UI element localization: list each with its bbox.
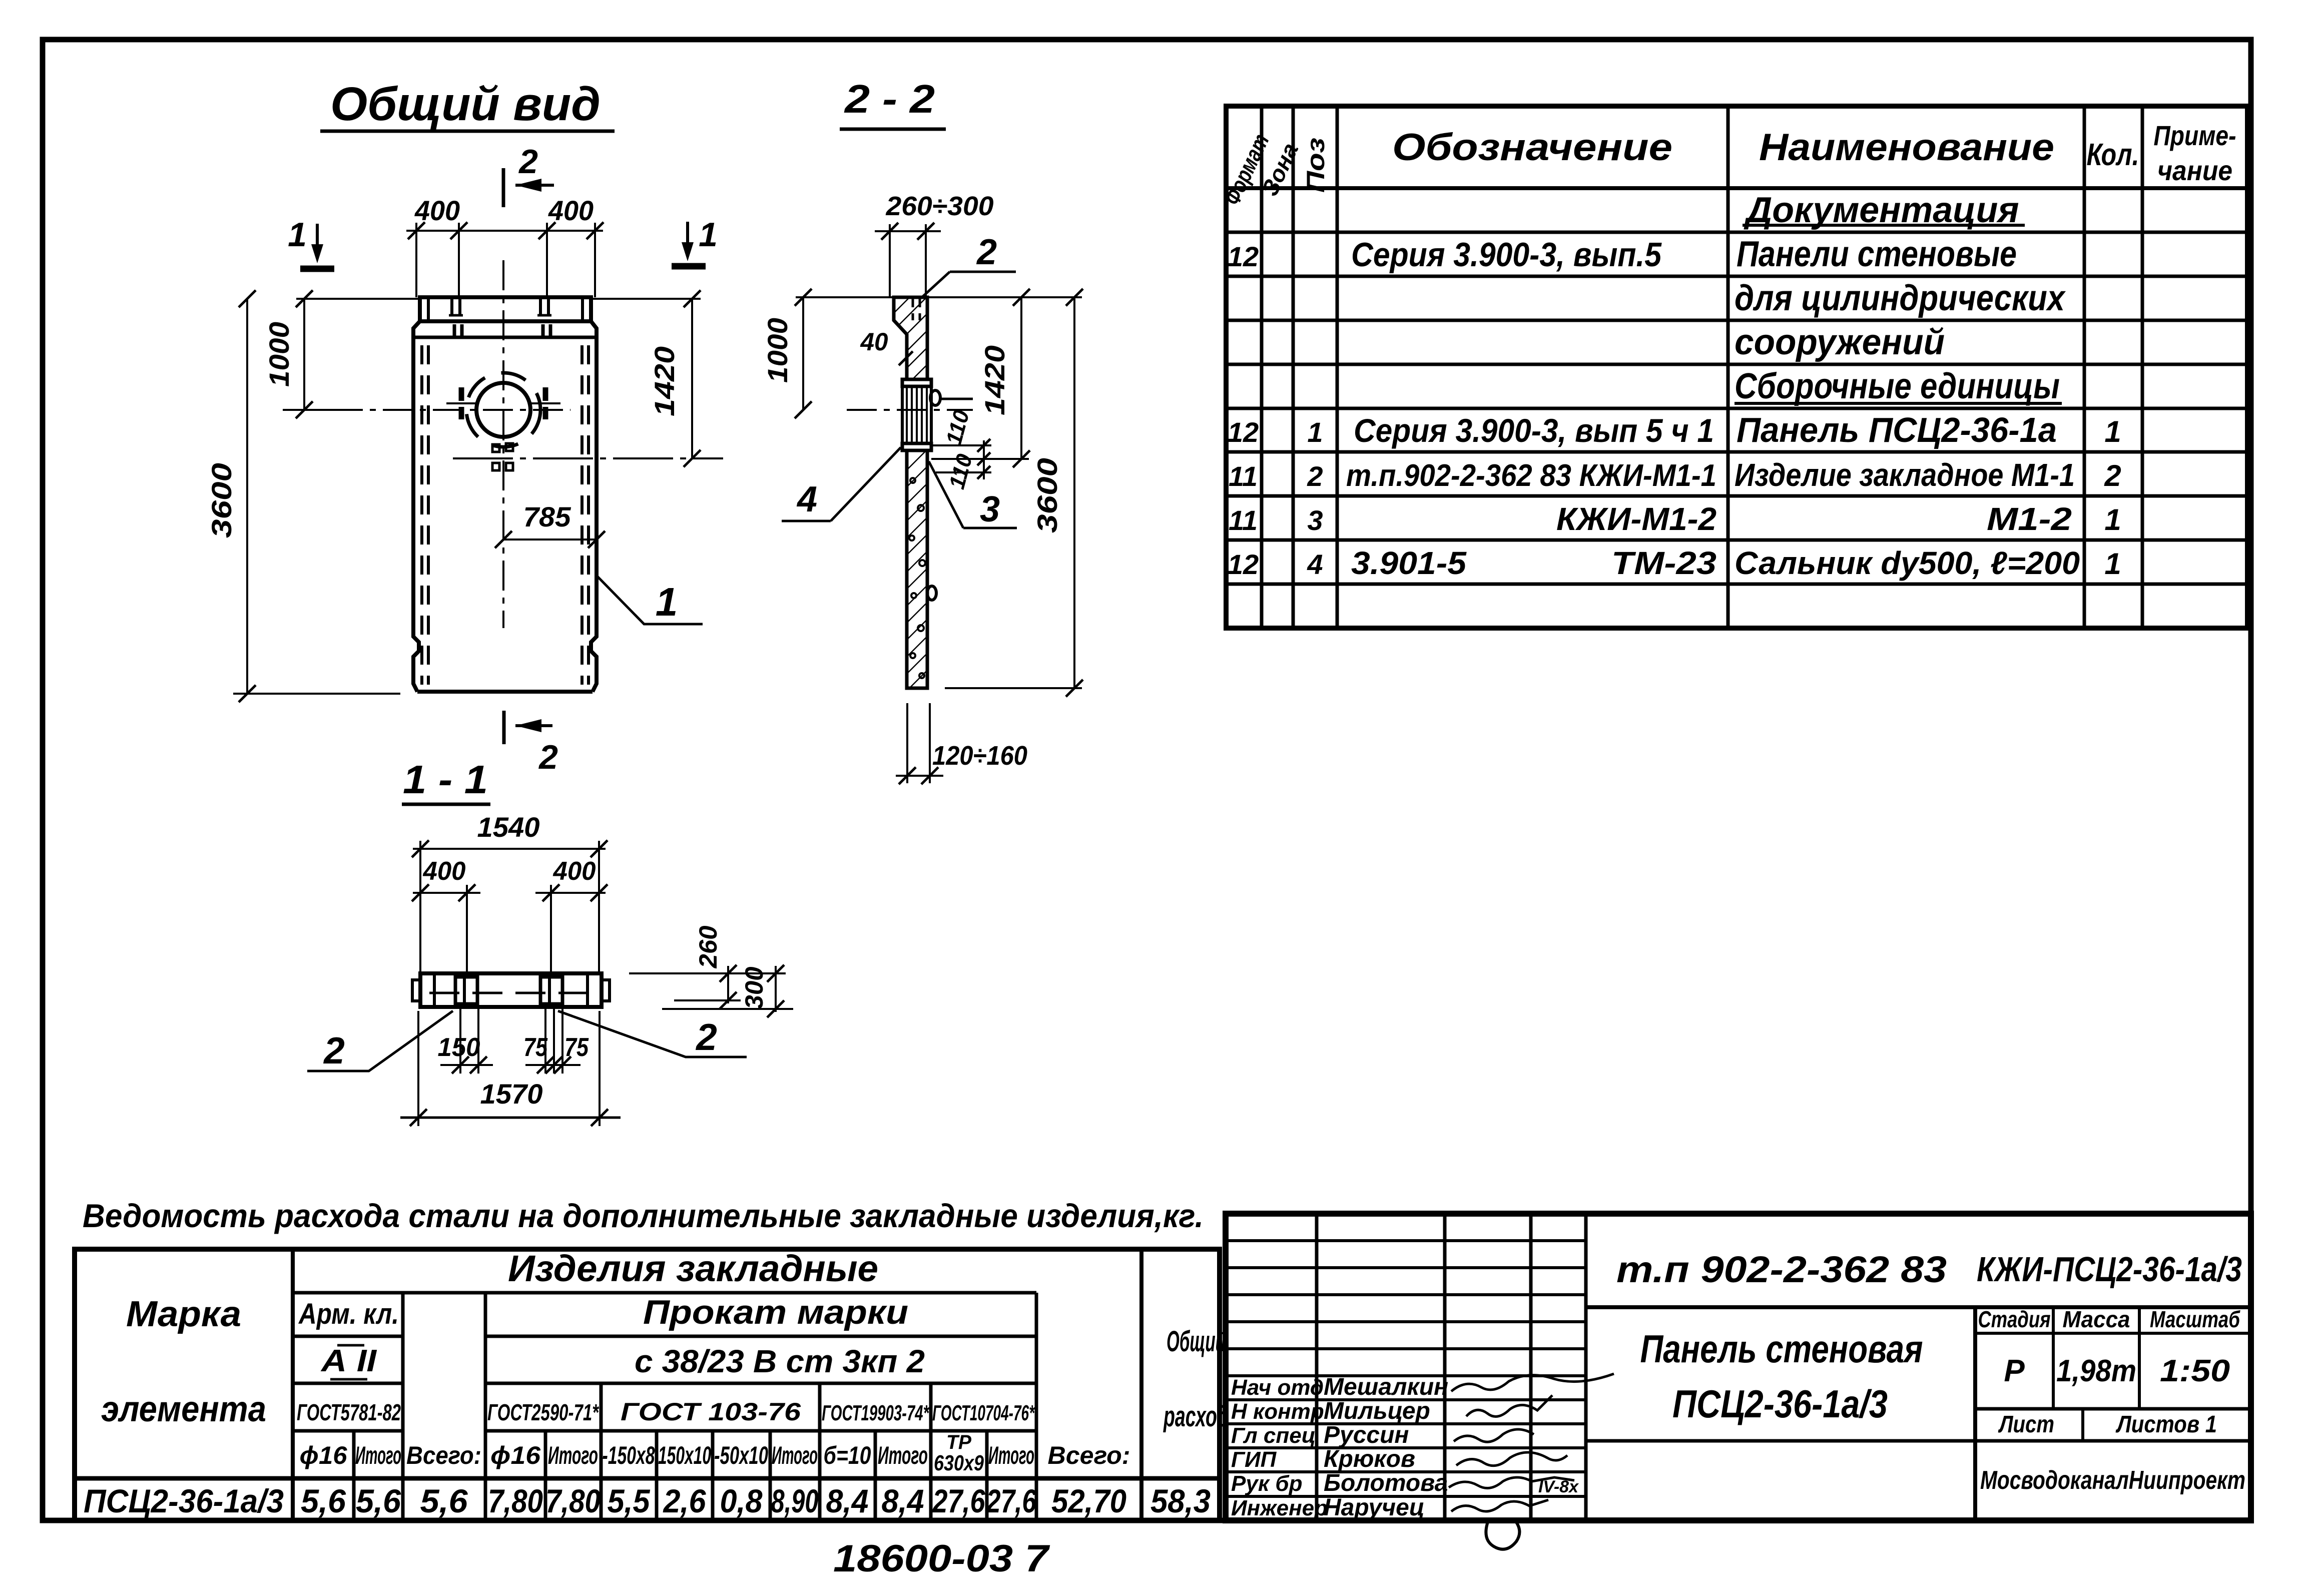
svg-text:0,8: 0,8: [720, 1482, 763, 1519]
svg-text:Обозначение: Обозначение: [1392, 126, 1672, 169]
dim 1420 (right): [591, 290, 701, 467]
svg-text:5,5: 5,5: [608, 1482, 651, 1519]
svg-text:1 - 1: 1 - 1: [403, 757, 488, 802]
svg-text:120÷160: 120÷160: [932, 741, 1027, 771]
svg-text:МосводоканалНиипроект: МосводоканалНиипроект: [1980, 1466, 2245, 1495]
dim 1000 (2-2): [762, 289, 894, 418]
embedded item squares: [492, 443, 513, 470]
spec row 1: Панель ПСЦ2-36-1а: [1228, 410, 2121, 449]
svg-text:ГОСТ 103-76: ГОСТ 103-76: [621, 1398, 801, 1426]
section mark 1 (right): [672, 216, 718, 266]
svg-text:элемента: элемента: [101, 1389, 266, 1429]
svg-text:1570: 1570: [480, 1078, 543, 1110]
svg-text:ПСЦ2-36-1а/3: ПСЦ2-36-1а/3: [1672, 1382, 1888, 1426]
svg-text:2: 2: [1307, 460, 1323, 492]
centerline 1-1: [429, 992, 593, 994]
sleeve packing (item 4): [902, 386, 931, 443]
2-2 wall (hatched): [907, 450, 927, 688]
svg-text:3: 3: [980, 489, 1000, 529]
svg-text:Панель ПСЦ2-36-1а: Панель ПСЦ2-36-1а: [1737, 410, 2057, 449]
spec table headers: [1219, 120, 2236, 209]
stadia values: [2004, 1354, 2230, 1388]
svg-text:4: 4: [1307, 549, 1323, 580]
svg-text:т.п 902-2-362 83: т.п 902-2-362 83: [1616, 1249, 1947, 1290]
lifting loop (2-2 upper): [930, 390, 973, 405]
view title: 1-1: [402, 757, 490, 804]
callout 1 leader: [598, 577, 703, 624]
svg-text:2: 2: [695, 1016, 717, 1058]
svg-text:Руссин: Руссин: [1324, 1422, 1409, 1448]
svg-text:-150x8: -150x8: [603, 1441, 655, 1469]
callout 3 (2-2): [929, 461, 1017, 529]
svg-text:2: 2: [538, 738, 558, 776]
svg-text:Итого: Итого: [878, 1441, 928, 1469]
svg-text:ТМ-23: ТМ-23: [1611, 545, 1716, 581]
dim 1000 (left): [263, 290, 420, 418]
svg-text:Изделие закладное М1-1: Изделие закладное М1-1: [1735, 457, 2075, 493]
svg-text:ГОСТ19903-74*: ГОСТ19903-74*: [822, 1401, 929, 1425]
svg-text:М1-2: М1-2: [1987, 501, 2072, 537]
spec row: Документация: [1743, 190, 2025, 230]
svg-text:Итого: Итого: [772, 1441, 818, 1469]
svg-text:8,90: 8,90: [771, 1482, 819, 1519]
panel cap (front view): [420, 297, 591, 321]
dims 260 300 (right of 1-1): [629, 925, 793, 1017]
svg-text:3: 3: [1307, 504, 1323, 536]
spec row 4: Сальник: [1228, 545, 2121, 581]
dim 785: [495, 501, 605, 548]
svg-text:2: 2: [518, 143, 538, 181]
svg-text:58,3: 58,3: [1150, 1482, 1211, 1519]
dim 400 400 (top): [406, 195, 604, 297]
svg-text:3600: 3600: [206, 463, 237, 538]
dashed circle (sleeve outline): [466, 373, 540, 447]
stadia headers: [1978, 1306, 2241, 1332]
dim 150: [438, 1009, 493, 1074]
svg-text:Панель стеновая: Панель стеновая: [1640, 1327, 1923, 1371]
svg-text:Всего:: Всего:: [406, 1441, 481, 1469]
dim 120÷160 (bottom): [896, 703, 1027, 784]
svg-text:б=10: б=10: [824, 1441, 871, 1469]
svg-text:Итого: Итого: [548, 1441, 598, 1469]
svg-text:Приме-: Приме-: [2154, 120, 2236, 151]
svg-text:11: 11: [1229, 504, 1258, 536]
svg-text:ГИП: ГИП: [1231, 1447, 1277, 1472]
svg-text:1: 1: [699, 216, 718, 254]
svg-text:1:50: 1:50: [2160, 1354, 2230, 1388]
hole circle: [476, 383, 530, 437]
svg-text:27,6: 27,6: [985, 1482, 1037, 1519]
svg-text:Кол.: Кол.: [2087, 138, 2139, 172]
svg-text:1: 1: [288, 216, 307, 254]
section 1-1 bar: [412, 973, 610, 1007]
svg-text:12: 12: [1228, 549, 1259, 580]
view title: Общий вид: [320, 78, 615, 131]
svg-text:18600-03 7: 18600-03 7: [833, 1537, 1050, 1580]
svg-text:Нач отд: Нач отд: [1231, 1375, 1324, 1400]
svg-text:Панели стеновые: Панели стеновые: [1737, 234, 2017, 274]
dim 1570: [400, 1011, 621, 1126]
svg-text:Рук бр: Рук бр: [1231, 1471, 1302, 1496]
svg-text:7,80: 7,80: [545, 1482, 601, 1519]
svg-text:Общий вид: Общий вид: [330, 78, 601, 131]
svg-text:7,80: 7,80: [488, 1482, 543, 1519]
svg-text:1: 1: [656, 580, 678, 624]
callout 4 (2-2): [782, 447, 901, 521]
svg-text:1000: 1000: [762, 318, 793, 383]
section mark 2 (bottom): [504, 711, 558, 776]
svg-text:КЖИ-ПСЦ2-36-1а/3: КЖИ-ПСЦ2-36-1а/3: [1977, 1250, 2242, 1289]
svg-text:3600: 3600: [1031, 458, 1063, 533]
svg-text:Сальник dу500, ℓ=200: Сальник dу500, ℓ=200: [1735, 545, 2080, 581]
dims 400 400 (1-1): [412, 857, 608, 973]
svg-text:Поз: Поз: [1302, 138, 1330, 193]
svg-text:5,6: 5,6: [356, 1482, 401, 1519]
svg-text:1420: 1420: [649, 346, 680, 416]
svg-text:2: 2: [323, 1029, 345, 1072]
svg-text:ПСЦ2-36-1а/3: ПСЦ2-36-1а/3: [84, 1482, 284, 1519]
sleeve bottom flange: [902, 443, 931, 450]
svg-text:Инженер: Инженер: [1231, 1496, 1328, 1520]
svg-text:Мильцер: Мильцер: [1324, 1398, 1430, 1424]
dim 3600 (left): [206, 290, 400, 702]
spec row 3: КЖИ-М1-2 / М1-2: [1229, 501, 2121, 537]
svg-text:400: 400: [553, 857, 596, 886]
svg-text:Сборочные единицы: Сборочные единицы: [1735, 366, 2060, 406]
sleeve top flange: [902, 379, 931, 386]
dashed face lines right: [582, 345, 589, 685]
dim 1540: [412, 811, 608, 973]
view title: 2-2: [840, 77, 946, 129]
svg-text:-50x10: -50x10: [714, 1441, 768, 1469]
svg-text:1: 1: [2104, 547, 2121, 581]
svg-text:75: 75: [564, 1033, 589, 1062]
callout 2 (1-1 right): [558, 1011, 747, 1058]
spec row: Сборочные единицы: [1735, 366, 2062, 406]
svg-text:Стадия: Стадия: [1978, 1306, 2051, 1332]
dim 3600 (2-2): [927, 289, 1083, 697]
steel table sub headers: [300, 1431, 1130, 1475]
svg-text:Арм. кл.: Арм. кл.: [298, 1298, 399, 1330]
svg-text:1: 1: [2104, 503, 2121, 537]
anchor marks beside hole: [446, 387, 560, 419]
svg-text:Лист: Лист: [1998, 1411, 2054, 1438]
2-2 cap (hatched): [894, 297, 927, 379]
svg-text:А II: А II: [320, 1344, 377, 1378]
svg-text:Гл спец: Гл спец: [1231, 1423, 1316, 1448]
svg-text:Ведомость расхода стали на доп: Ведомость расхода стали на дополнительны…: [83, 1197, 1204, 1234]
svg-text:12: 12: [1228, 241, 1259, 272]
svg-text:2,6: 2,6: [663, 1482, 707, 1519]
svg-text:ГОСТ5781-82: ГОСТ5781-82: [297, 1399, 401, 1425]
svg-text:8,4: 8,4: [882, 1482, 924, 1519]
svg-text:5,6: 5,6: [420, 1482, 468, 1519]
svg-text:Крюков: Крюков: [1324, 1446, 1415, 1472]
dashed face lines left: [422, 345, 428, 685]
bolt block left (1-1): [455, 977, 477, 1004]
svg-text:Общий: Общий: [1167, 1325, 1226, 1358]
svg-text:сооружений: сооружений: [1735, 322, 1945, 362]
svg-text:Наименование: Наименование: [1759, 126, 2054, 169]
svg-text:Серия 3.900-3, вып 5 ч 1: Серия 3.900-3, вып 5 ч 1: [1354, 412, 1714, 449]
svg-text:300: 300: [740, 966, 768, 1009]
svg-text:Мешалкин: Мешалкин: [1324, 1374, 1448, 1400]
svg-text:2: 2: [976, 232, 997, 272]
svg-text:1540: 1540: [477, 811, 540, 843]
svg-text:с 38/23 В ст 3кп 2: с 38/23 В ст 3кп 2: [635, 1343, 925, 1379]
svg-text:400: 400: [414, 195, 460, 226]
steel table data row: [84, 1482, 1211, 1519]
dims 75 75: [523, 1009, 589, 1074]
spec row: Серия 3.900-3 вып.5 / Панели стеновые: [1228, 234, 2017, 274]
title block grid: [1226, 1214, 2251, 1520]
svg-text:4: 4: [796, 479, 817, 519]
svg-text:1420: 1420: [979, 345, 1010, 415]
lifting loop (2-2 lower): [927, 586, 936, 600]
panel body outline (front view): [413, 321, 597, 692]
spec row 2: Изделие закладное М1-1: [1229, 457, 2121, 493]
dims 110 110: [931, 407, 991, 492]
svg-text:2 - 2: 2 - 2: [844, 77, 935, 121]
svg-text:ϕ16: ϕ16: [490, 1441, 541, 1469]
svg-text:5,6: 5,6: [301, 1482, 346, 1519]
svg-text:260: 260: [694, 925, 722, 968]
vertical centerline: [502, 260, 504, 628]
svg-text:52,70: 52,70: [1051, 1482, 1126, 1519]
svg-text:1,98т: 1,98т: [2056, 1354, 2136, 1388]
horizontal centerline (hole axis): [283, 409, 570, 411]
svg-text:т.п.902-2-362 83 КЖИ-М1-1: т.п.902-2-362 83 КЖИ-М1-1: [1346, 458, 1716, 493]
concrete dots on wall: [909, 478, 925, 678]
steel table grid: [75, 1249, 1220, 1520]
bolt block right (1-1): [540, 977, 562, 1004]
svg-text:Масштаб: Масштаб: [2150, 1306, 2240, 1332]
svg-text:40: 40: [860, 328, 888, 356]
bolt axis line: [453, 457, 723, 459]
svg-text:3.901-5: 3.901-5: [1351, 545, 1467, 581]
svg-text:ГОСТ10704-76*: ГОСТ10704-76*: [932, 1401, 1035, 1425]
svg-text:1: 1: [2104, 415, 2121, 448]
svg-text:КЖИ-М1-2: КЖИ-М1-2: [1556, 501, 1716, 537]
svg-text:1000: 1000: [263, 322, 295, 387]
svg-text:1: 1: [1307, 416, 1323, 448]
signature roles and names: [1231, 1374, 1448, 1521]
sheet row: Лист / Листов 1: [1998, 1411, 2217, 1438]
svg-text:8,4: 8,4: [826, 1482, 869, 1519]
svg-text:12: 12: [1228, 416, 1259, 448]
svg-text:расход: расход: [1163, 1400, 1229, 1433]
svg-text:Листов 1: Листов 1: [2115, 1411, 2217, 1438]
svg-text:чание: чание: [2157, 155, 2232, 186]
svg-text:75: 75: [523, 1033, 548, 1062]
section mark 1 (left): [288, 216, 334, 269]
svg-text:Итого: Итого: [355, 1441, 401, 1469]
svg-text:11: 11: [1229, 460, 1258, 492]
svg-text:Итого: Итого: [988, 1441, 1034, 1469]
svg-text:Масса: Масса: [2063, 1306, 2130, 1332]
svg-text:Изделия закладные: Изделия закладные: [508, 1248, 878, 1289]
svg-text:785: 785: [523, 501, 571, 533]
svg-text:260÷300: 260÷300: [885, 191, 993, 221]
svg-text:150: 150: [438, 1033, 480, 1062]
callout 2 (2-2): [921, 232, 1016, 298]
svg-text:ГОСТ2590-71*: ГОСТ2590-71*: [487, 1399, 599, 1425]
callout 2 (1-1 left): [307, 1011, 453, 1072]
svg-text:Н контр: Н контр: [1231, 1399, 1324, 1424]
cap bolt slots: [449, 298, 551, 336]
svg-text:400: 400: [423, 857, 466, 886]
dim 1420 (2-2): [931, 289, 1030, 467]
svg-text:Р: Р: [2004, 1354, 2025, 1388]
specification table grid: [1226, 106, 2247, 628]
svg-text:для цилиндрических: для цилиндрических: [1735, 278, 2066, 318]
section mark 2 (top): [503, 143, 554, 207]
svg-text:Серия 3.900-3, вып.5: Серия 3.900-3, вып.5: [1351, 236, 1662, 274]
title block outline: [1226, 1214, 2251, 1520]
steel table headers: [101, 1248, 1229, 1433]
svg-text:400: 400: [548, 195, 594, 226]
centerline 2-2: [847, 409, 973, 411]
svg-text:ТР: ТР: [946, 1431, 971, 1453]
svg-text:Прокат марки: Прокат марки: [643, 1293, 908, 1331]
signatures (squiggles): [1449, 1374, 1614, 1511]
svg-text:Всего:: Всего:: [1048, 1441, 1130, 1469]
svg-text:Марка: Марка: [126, 1294, 241, 1334]
svg-text:2: 2: [2104, 459, 2121, 492]
dim 260÷300 (2-2 top): [875, 191, 994, 297]
dim 40: [860, 328, 913, 365]
svg-text:Болотова: Болотова: [1324, 1470, 1448, 1496]
signature flourish below frame: [1486, 1519, 1519, 1549]
svg-text:Наручец: Наручец: [1324, 1494, 1425, 1521]
svg-text:27,6: 27,6: [932, 1482, 986, 1519]
svg-text:ϕ16: ϕ16: [300, 1441, 348, 1469]
svg-text:150x10: 150x10: [658, 1441, 711, 1469]
svg-text:630x9: 630x9: [934, 1451, 984, 1475]
